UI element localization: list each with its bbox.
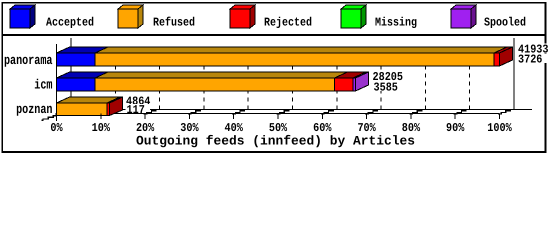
legend cube Refused (118, 5, 143, 28)
bar poznan: red top face (107, 97, 123, 103)
bar panorama: orange front (95, 53, 494, 66)
bar panorama: orange top face (95, 47, 507, 53)
svg-text:117: 117 (127, 103, 145, 117)
bar poznan: orange front (57, 103, 108, 116)
bar panorama: blue top face (57, 47, 513, 66)
bar icm: orange front (95, 78, 335, 91)
bar icm: red front (335, 78, 354, 91)
bar icm: blue front (57, 78, 96, 91)
bar icm: purple top face (353, 72, 369, 78)
legend cube Accepted (10, 5, 35, 28)
svg-text:poznan: poznan (16, 103, 52, 118)
back y-axis line (70, 38, 72, 110)
value label icm 3585 (373, 82, 399, 91)
svg-text:Accepted: Accepted (46, 16, 94, 30)
svg-text:3585: 3585 (374, 80, 398, 94)
svg-text:100%: 100% (487, 121, 512, 135)
bar panorama: blue front (57, 53, 96, 66)
0% forward depth tick (42, 116, 57, 121)
floor slant ticks 0-10% (55, 110, 112, 115)
back floor line (71, 109, 533, 111)
legend separator line (2, 34, 546, 36)
dashed 80% gridline (424, 48, 426, 110)
svg-text:Refused: Refused (153, 16, 195, 30)
front floor line (x-axis) (57, 113, 500, 115)
value label poznan 117 (126, 104, 151, 113)
value label panorama 3726 (517, 54, 550, 63)
legend cube Rejected (230, 5, 255, 28)
dashed 50% gridline (292, 48, 294, 110)
bar poznan: red end cap (110, 97, 123, 116)
svg-text:Missing: Missing (375, 16, 417, 30)
value label poznan 4864 (125, 96, 151, 105)
bar panorama: red end cap (500, 47, 513, 66)
dashed 40% gridline (247, 48, 249, 110)
legend cube Spooled (451, 5, 476, 28)
svg-text:icm: icm (34, 79, 52, 94)
front y-axis line (56, 44, 58, 121)
bar icm: purple front (353, 78, 356, 91)
value label panorama 41933 (517, 44, 550, 53)
dashed 90% gridline (469, 48, 471, 110)
svg-text:90%: 90% (446, 121, 465, 135)
svg-text:3726: 3726 (518, 53, 542, 67)
legend cube Missing (341, 5, 366, 28)
bar poznan: red front (107, 103, 110, 116)
bar icm: purple end cap (356, 72, 369, 91)
svg-text:Spooled: Spooled (484, 16, 526, 30)
bar icm: red top face (335, 72, 367, 78)
floor slant ticks 20-100% (144, 110, 511, 115)
bar panorama: red front (494, 53, 500, 66)
bar icm: blue top face (57, 72, 369, 91)
svg-text:10%: 10% (92, 121, 111, 135)
dashed 70% gridline (380, 48, 382, 110)
bar poznan: orange top face (57, 97, 123, 116)
dashed 60% gridline (336, 48, 338, 110)
bar panorama: red top face (494, 47, 513, 53)
dashed 20% gridline (159, 48, 161, 110)
border frame (2, 2, 547, 153)
svg-text:panorama: panorama (4, 54, 53, 69)
back 100% line (513, 38, 515, 110)
front axis tick marks (57, 114, 500, 120)
svg-text:Outgoing feeds (innfeed) by Ar: Outgoing feeds (innfeed) by Articles (136, 134, 415, 149)
value label icm 28205 (372, 71, 405, 80)
dashed 10% gridline (114, 48, 116, 110)
bar icm: orange top face (95, 72, 348, 78)
svg-text:Rejected: Rejected (264, 16, 312, 30)
dashed 30% gridline (203, 48, 205, 110)
svg-text:0%: 0% (50, 121, 63, 135)
